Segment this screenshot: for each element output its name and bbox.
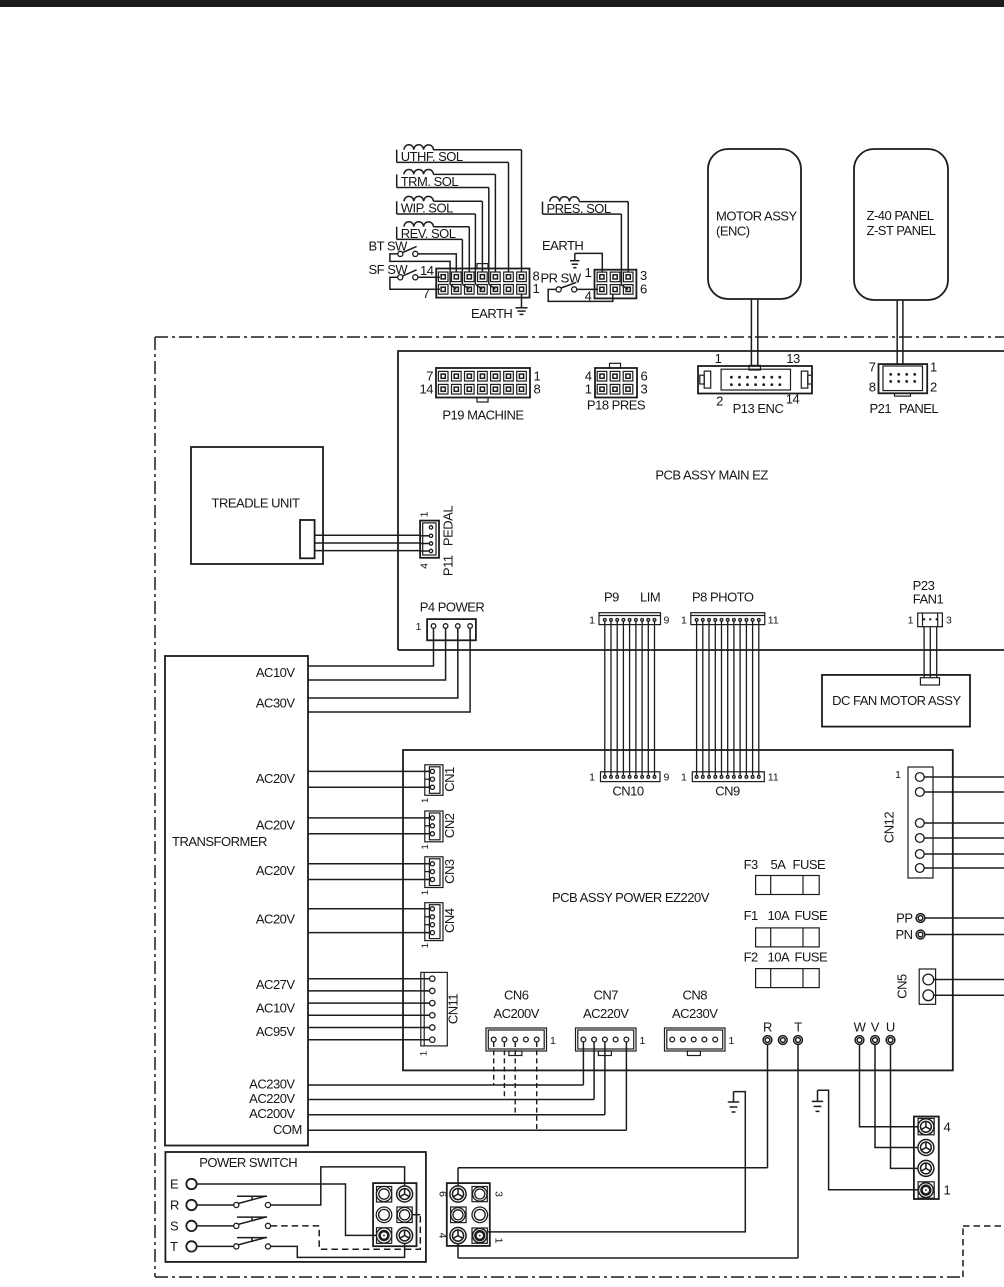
svg-text:CN10: CN10 <box>612 783 644 798</box>
svg-text:14: 14 <box>420 381 434 396</box>
svg-text:P11 PEDAL: P11 PEDAL <box>440 506 455 576</box>
svg-text:1: 1 <box>640 1035 646 1047</box>
svg-text:AC95V: AC95V <box>256 1024 296 1039</box>
svg-text:CN11: CN11 <box>446 994 461 1025</box>
svg-text:PRES. SOL: PRES. SOL <box>547 201 611 216</box>
svg-text:1: 1 <box>493 1238 505 1244</box>
svg-text:FUSE: FUSE <box>793 857 827 872</box>
svg-text:1: 1 <box>420 890 431 895</box>
svg-text:1: 1 <box>420 943 431 948</box>
svg-text:AC230V: AC230V <box>672 1006 718 1021</box>
svg-text:7: 7 <box>869 360 876 375</box>
svg-text:V: V <box>871 1020 880 1035</box>
svg-text:CN5: CN5 <box>895 974 910 999</box>
svg-text:(ENC): (ENC) <box>716 223 750 238</box>
svg-text:P21: P21 <box>870 401 892 416</box>
svg-text:DC FAN MOTOR ASSY: DC FAN MOTOR ASSY <box>832 693 961 708</box>
svg-text:3: 3 <box>493 1191 505 1197</box>
svg-text:PCB ASSY POWER EZ220V: PCB ASSY POWER EZ220V <box>552 890 710 905</box>
svg-text:CN6: CN6 <box>504 987 529 1002</box>
svg-text:POWER SWITCH: POWER SWITCH <box>199 1155 297 1170</box>
svg-text:1: 1 <box>585 381 592 396</box>
svg-text:FUSE: FUSE <box>795 950 829 965</box>
svg-text:FUSE: FUSE <box>795 908 829 923</box>
svg-text:TRM. SOL: TRM. SOL <box>401 174 459 189</box>
svg-text:1: 1 <box>908 615 914 627</box>
svg-text:U: U <box>886 1020 895 1035</box>
svg-text:PANEL: PANEL <box>899 401 938 416</box>
svg-text:1: 1 <box>944 1183 951 1198</box>
svg-text:Z-40 PANEL: Z-40 PANEL <box>867 208 934 223</box>
svg-text:1: 1 <box>589 615 595 627</box>
svg-text:T: T <box>170 1239 178 1254</box>
svg-text:PN: PN <box>895 927 912 942</box>
svg-text:F2: F2 <box>744 950 758 965</box>
svg-text:AC20V: AC20V <box>256 771 296 786</box>
svg-text:6: 6 <box>640 282 647 297</box>
svg-text:8: 8 <box>534 381 541 396</box>
svg-text:10A: 10A <box>768 950 790 965</box>
svg-text:P9: P9 <box>604 590 619 605</box>
svg-text:11: 11 <box>768 615 779 627</box>
svg-text:10A: 10A <box>768 908 790 923</box>
svg-text:P19 MACHINE: P19 MACHINE <box>442 407 524 422</box>
svg-text:EARTH: EARTH <box>542 238 583 253</box>
svg-text:14: 14 <box>786 391 800 406</box>
svg-text:PCB ASSY MAIN EZ: PCB ASSY MAIN EZ <box>655 468 768 483</box>
svg-text:P18 PRES: P18 PRES <box>587 398 646 413</box>
svg-text:P4 POWER: P4 POWER <box>420 600 485 615</box>
svg-text:TREADLE UNIT: TREADLE UNIT <box>212 496 300 511</box>
svg-text:11: 11 <box>768 772 779 784</box>
svg-text:F3: F3 <box>744 857 758 872</box>
svg-text:8: 8 <box>869 380 876 395</box>
svg-text:T: T <box>794 1020 802 1035</box>
svg-text:CN9: CN9 <box>715 783 740 798</box>
svg-text:1: 1 <box>681 772 687 784</box>
svg-text:1: 1 <box>419 511 431 517</box>
svg-text:7: 7 <box>423 286 430 301</box>
svg-text:1: 1 <box>895 769 901 781</box>
svg-text:1: 1 <box>420 844 431 849</box>
svg-text:S: S <box>170 1219 179 1234</box>
svg-text:CN2: CN2 <box>442 813 457 838</box>
svg-text:R: R <box>763 1020 772 1035</box>
svg-text:5A: 5A <box>771 857 787 872</box>
svg-text:F1: F1 <box>744 908 758 923</box>
svg-text:4: 4 <box>437 1233 449 1239</box>
svg-text:2: 2 <box>716 393 723 408</box>
svg-text:P8 PHOTO: P8 PHOTO <box>692 590 754 605</box>
svg-text:1: 1 <box>729 1035 735 1047</box>
svg-text:R: R <box>170 1198 179 1213</box>
svg-text:PP: PP <box>896 911 912 926</box>
svg-text:1: 1 <box>715 351 722 366</box>
svg-text:1: 1 <box>550 1035 556 1047</box>
svg-text:AC30V: AC30V <box>256 695 296 710</box>
svg-text:AC20V: AC20V <box>256 863 296 878</box>
svg-text:AC200V: AC200V <box>493 1006 539 1021</box>
svg-text:4: 4 <box>419 563 431 569</box>
svg-text:1: 1 <box>533 281 540 296</box>
svg-text:Z-ST PANEL: Z-ST PANEL <box>867 223 936 238</box>
svg-text:AC10V: AC10V <box>256 1001 296 1016</box>
svg-text:AC230V: AC230V <box>249 1077 295 1092</box>
svg-text:SF SW: SF SW <box>369 262 409 277</box>
svg-text:CN1: CN1 <box>442 767 457 792</box>
svg-text:FAN1: FAN1 <box>913 592 944 607</box>
svg-text:AC27V: AC27V <box>256 977 296 992</box>
svg-text:TRANSFORMER: TRANSFORMER <box>172 834 267 849</box>
svg-text:9: 9 <box>664 772 670 784</box>
svg-text:14: 14 <box>420 263 434 278</box>
svg-text:1: 1 <box>681 615 687 627</box>
svg-text:1: 1 <box>585 265 592 280</box>
svg-text:COM: COM <box>273 1122 302 1137</box>
svg-text:3: 3 <box>946 615 952 627</box>
svg-text:WIP. SOL: WIP. SOL <box>401 200 453 215</box>
svg-text:LIM: LIM <box>640 590 660 605</box>
svg-text:CN7: CN7 <box>593 987 618 1002</box>
svg-text:1: 1 <box>420 798 431 803</box>
svg-text:W: W <box>854 1020 867 1035</box>
svg-text:6: 6 <box>437 1191 449 1197</box>
svg-text:4: 4 <box>585 289 592 304</box>
svg-text:AC20V: AC20V <box>256 912 296 927</box>
svg-text:1: 1 <box>589 772 595 784</box>
svg-text:1: 1 <box>930 360 937 375</box>
svg-text:AC200V: AC200V <box>249 1106 295 1121</box>
svg-text:E: E <box>170 1177 179 1192</box>
svg-text:CN3: CN3 <box>442 859 457 884</box>
svg-text:CN12: CN12 <box>882 812 897 844</box>
svg-text:4: 4 <box>944 1120 951 1135</box>
svg-text:UTHF. SOL: UTHF. SOL <box>401 149 463 164</box>
svg-text:2: 2 <box>930 380 937 395</box>
svg-text:AC20V: AC20V <box>256 817 296 832</box>
svg-text:AC220V: AC220V <box>249 1091 295 1106</box>
svg-text:1: 1 <box>419 1051 430 1056</box>
svg-text:AC10V: AC10V <box>256 665 296 680</box>
svg-text:9: 9 <box>664 615 670 627</box>
svg-text:REV. SOL: REV. SOL <box>401 226 456 241</box>
svg-text:13: 13 <box>786 351 800 366</box>
svg-text:CN4: CN4 <box>442 908 457 933</box>
svg-text:EARTH: EARTH <box>471 306 512 321</box>
svg-text:1: 1 <box>416 621 422 633</box>
svg-text:MOTOR ASSY: MOTOR ASSY <box>716 209 798 224</box>
svg-text:P13 ENC: P13 ENC <box>733 401 784 416</box>
svg-text:CN8: CN8 <box>682 987 707 1002</box>
svg-text:AC220V: AC220V <box>583 1006 629 1021</box>
svg-text:3: 3 <box>641 381 648 396</box>
